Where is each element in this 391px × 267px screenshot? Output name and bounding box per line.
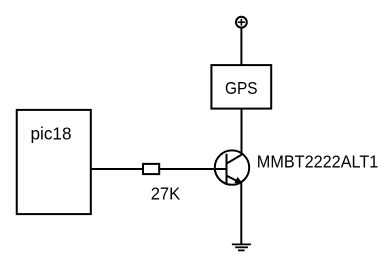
svg-text:27K: 27K <box>151 184 181 204</box>
svg-text:GPS: GPS <box>225 78 258 98</box>
svg-text:pic18: pic18 <box>31 124 72 144</box>
svg-text:MMBT2222ALT1: MMBT2222ALT1 <box>257 151 379 171</box>
